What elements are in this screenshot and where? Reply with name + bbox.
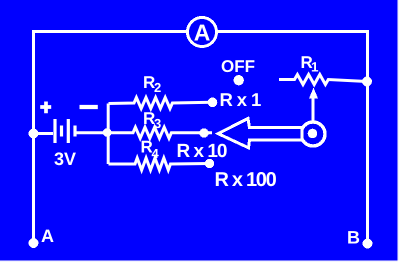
svg-text:R x 1: R x 1: [220, 89, 262, 110]
svg-text:A: A: [194, 19, 211, 45]
svg-text:A: A: [41, 226, 54, 246]
svg-text:R x 100: R x 100: [215, 169, 277, 191]
svg-text:OFF: OFF: [221, 57, 255, 76]
svg-text:1: 1: [311, 60, 319, 75]
svg-text:R x 10: R x 10: [177, 141, 227, 162]
svg-text:3: 3: [154, 116, 161, 131]
svg-text:4: 4: [152, 146, 160, 161]
svg-text:2: 2: [154, 80, 161, 95]
svg-text:3V: 3V: [54, 149, 76, 169]
svg-text:B: B: [347, 228, 360, 248]
